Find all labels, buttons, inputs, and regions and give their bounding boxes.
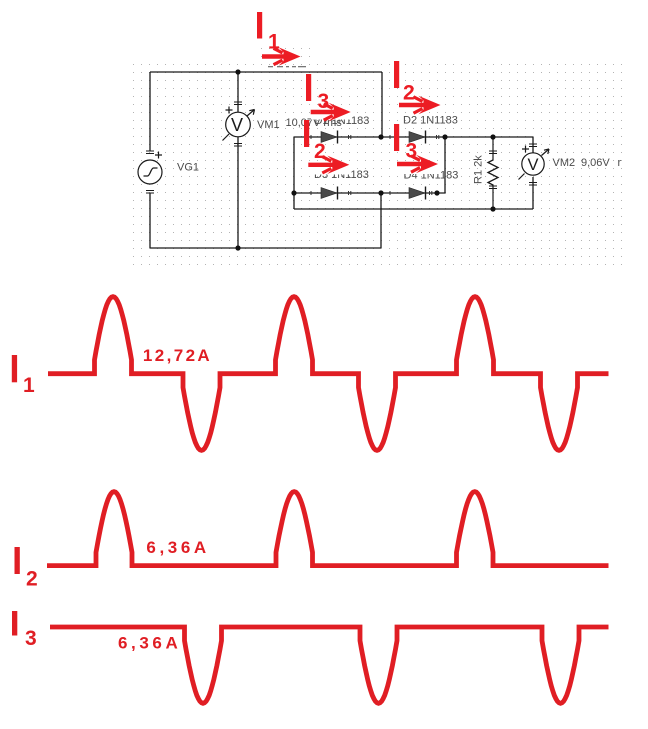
svg-text:V: V — [528, 156, 539, 174]
annotation current I3 at D1 — [306, 74, 351, 121]
node: VM1 top junction — [235, 69, 240, 74]
node: bridge bottom left junction — [291, 190, 296, 195]
waveform trace I1 — [48, 297, 609, 451]
source VG1 — [138, 151, 162, 193]
wire: bridge right column — [437, 137, 445, 193]
dashed remnant marks — [268, 66, 306, 67]
annotation current I1 (label bar, subscript, arrow) — [257, 12, 301, 66]
svg-text:9,06V: 9,06V — [581, 157, 610, 169]
annotation current I2 at D3 — [304, 120, 349, 174]
label I1 — [12, 355, 35, 397]
wire top: VG1 top to bridge input — [150, 71, 382, 73]
wire: bridge bottom input riser — [380, 193, 382, 248]
waveform trace I2 — [47, 492, 609, 566]
node: R1 top junction — [490, 134, 495, 139]
svg-text:1: 1 — [23, 374, 35, 397]
svg-text:6,36A: 6,36A — [146, 538, 209, 557]
wire: VM1 branch vertical — [237, 72, 239, 248]
diode D1 — [311, 131, 351, 144]
svg-text:D2 1N1183: D2 1N1183 — [403, 115, 458, 127]
node: R1 bottom junction — [490, 206, 495, 211]
svg-text:6,36A: 6,36A — [118, 633, 181, 652]
label I2 — [15, 547, 38, 590]
erase mark over D3 label — [308, 167, 351, 175]
voltmeter VM1 — [223, 102, 255, 146]
diode D2 — [390, 131, 439, 144]
wire: output bottom rail — [294, 208, 533, 210]
diode D4 — [390, 187, 432, 200]
svg-text:R1 2k: R1 2k — [473, 155, 485, 184]
svg-text:VG1: VG1 — [177, 162, 199, 174]
node: bridge bottom mid junction — [378, 190, 383, 195]
erase mark over D4 label — [396, 167, 440, 175]
svg-text:2: 2 — [314, 140, 326, 163]
wire: bridge left column — [293, 137, 295, 209]
wire left: VG1 branch — [149, 72, 151, 248]
node: bridge top mid junction — [378, 134, 383, 139]
node: VM1 bottom junction — [235, 245, 240, 250]
erase mark over D1 label — [311, 112, 352, 120]
node: D4 cathode junction — [434, 190, 439, 195]
voltmeter VM2 — [519, 144, 550, 185]
diode D3 — [311, 187, 351, 200]
svg-text:V: V — [231, 115, 243, 135]
wire: bridge bottom rail — [294, 192, 437, 194]
svg-text:12,72A: 12,72A — [143, 346, 212, 365]
wire: top input drop to bridge top rail — [381, 72, 383, 137]
annotation current I3 at D4 — [394, 124, 438, 173]
annotation current I2 at D2 — [394, 61, 441, 114]
wire bottom: VG1 bottom to bridge bottom input — [150, 247, 381, 249]
svg-text:2: 2 — [26, 567, 38, 590]
svg-text:2: 2 — [403, 82, 415, 105]
svg-text:VM2: VM2 — [553, 157, 576, 169]
svg-text:r: r — [618, 157, 622, 169]
wire: output top to R1 and VM2 — [445, 136, 533, 138]
label I3 — [12, 611, 37, 650]
resistor R1 — [488, 137, 498, 209]
waveform trace I3 — [50, 627, 609, 703]
wire: VM2 drops — [532, 137, 534, 209]
svg-text:3: 3 — [25, 627, 37, 650]
svg-text:3: 3 — [318, 90, 330, 113]
node: output plus junction — [442, 134, 447, 139]
wire: bridge top rail — [294, 136, 445, 138]
schematic grid background — [130, 58, 624, 268]
svg-text:VM1: VM1 — [257, 119, 280, 131]
pasted grid remnant above wire — [256, 44, 312, 64]
